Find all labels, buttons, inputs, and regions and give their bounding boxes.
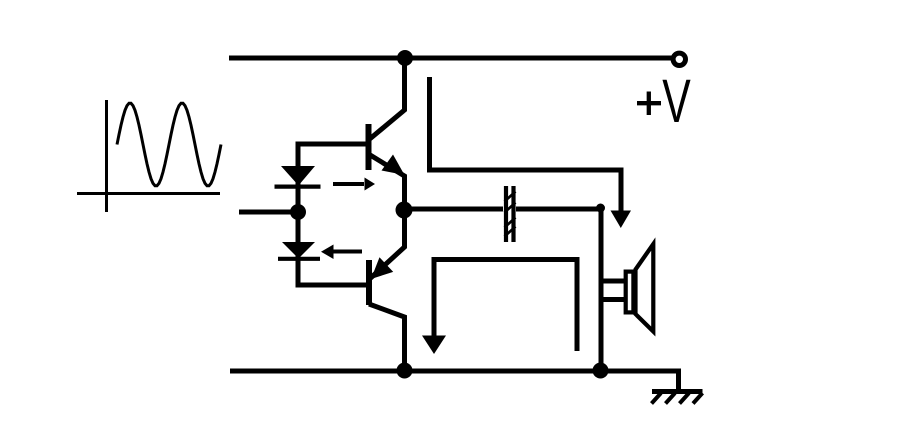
svg-text:V: V xyxy=(662,68,690,136)
